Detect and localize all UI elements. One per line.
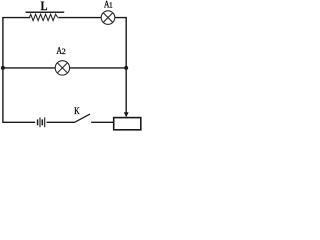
switch K label (74, 107, 79, 114)
wire bottom left segment (2, 121, 35, 123)
lamp A1 label (104, 1, 112, 8)
battery (38, 117, 45, 127)
wire top left segment (2, 17, 30, 19)
rheostat R body (114, 118, 141, 130)
wire top middle segment (58, 17, 101, 19)
rheostat slider wire (125, 68, 127, 113)
lamp A2 label (57, 47, 66, 54)
wire top right corner segment (115, 18, 126, 68)
wire middle right segment (70, 67, 127, 69)
wire middle left segment (3, 67, 55, 69)
node junction right (124, 66, 128, 70)
inductor L (26, 12, 65, 20)
rheostat slider arrow (124, 112, 129, 117)
switch K (75, 114, 90, 122)
node junction left (1, 66, 5, 70)
wire switch to rheostat (91, 121, 114, 123)
lamp A2 (55, 61, 69, 75)
wire left vertical (2, 18, 4, 123)
inductor L label (41, 2, 47, 11)
lamp A1 (101, 11, 115, 25)
wire battery to switch (47, 121, 75, 123)
